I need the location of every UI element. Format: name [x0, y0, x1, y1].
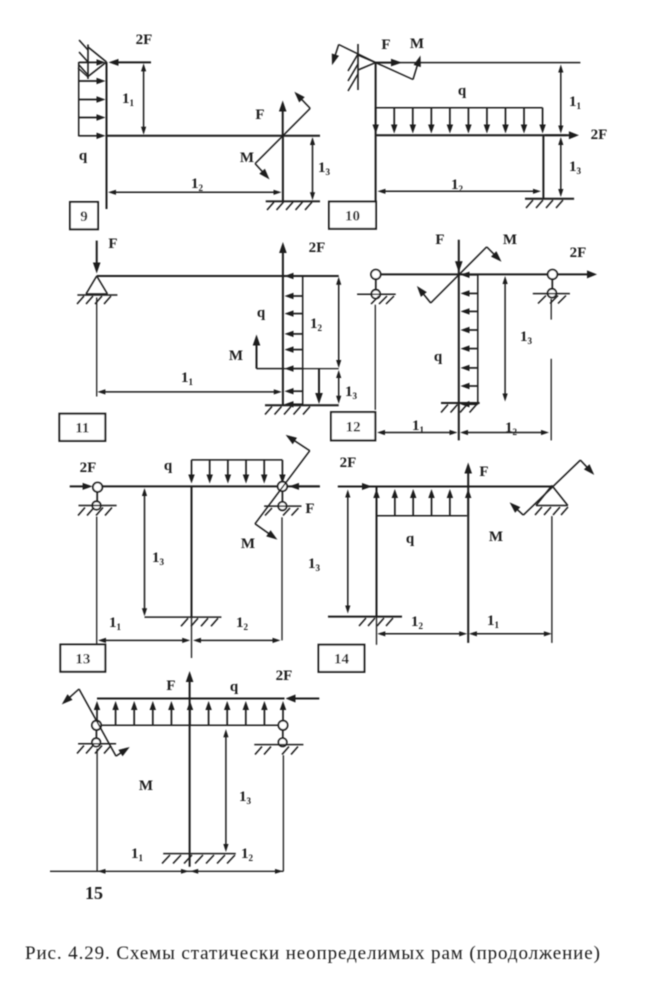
frame 11: distributed load q tail line	[302, 276, 304, 405]
frame 14: dimension l3 line	[345, 490, 350, 614]
frame 10: support wall hatching	[348, 54, 358, 91]
frame 14: label 2F	[340, 455, 357, 471]
frame 13: right extension line	[281, 517, 283, 640]
svg-text:q: q	[164, 458, 173, 474]
svg-text:2F: 2F	[340, 455, 357, 471]
svg-text:F: F	[381, 37, 390, 53]
frame 10: support wall line	[357, 44, 359, 90]
frame 10: bent reaction arrow at support	[332, 45, 376, 66]
svg-text:13: 13	[75, 652, 90, 668]
frame 9: label M	[240, 150, 254, 166]
svg-text:2F: 2F	[591, 127, 608, 143]
frame 14: label F	[479, 464, 488, 480]
frame 11: force 2F arrow	[279, 242, 287, 276]
svg-text:M: M	[410, 36, 424, 52]
frame 13: label q	[164, 458, 173, 474]
svg-text:10: 10	[345, 209, 360, 225]
frame 10: distributed load q arrows	[373, 108, 546, 134]
frame 13: label 2F	[80, 460, 97, 476]
frame 11: beam	[97, 275, 339, 277]
frame 11: label M	[229, 348, 243, 364]
frame 11: label F	[108, 236, 117, 252]
frame 10: right column	[542, 135, 544, 199]
frame 13: label l1	[109, 615, 122, 632]
frame 11: support ground line	[77, 294, 117, 296]
frame 13: label F	[305, 501, 314, 517]
frame 12: label M	[503, 232, 517, 248]
frame 10: label q	[458, 83, 467, 99]
frame 10: force F arrow	[376, 59, 402, 67]
svg-text:q: q	[434, 349, 443, 365]
svg-text:F: F	[435, 232, 444, 248]
frame 13: right roller hatching	[265, 508, 299, 516]
frame 10: beam	[376, 134, 567, 136]
svg-text:q: q	[230, 679, 239, 695]
frame 11: label q	[257, 305, 266, 321]
frame 9: left column	[106, 62, 108, 209]
frame 9: pinned support triangle side upper	[88, 47, 107, 62]
frame 15: label 2F	[276, 668, 293, 684]
frame 12: label l1	[412, 418, 425, 435]
svg-text:q: q	[406, 531, 415, 547]
frame 15: distributed load q arrows	[94, 701, 286, 725]
frame 14: support ground hatching	[535, 507, 568, 515]
frame 13: right roller ground line	[264, 505, 301, 507]
frame 15: beam	[97, 698, 285, 700]
frame 12: dimension l1 line	[377, 430, 458, 435]
frame 11: number box 11	[59, 414, 105, 441]
svg-text:14: 14	[334, 652, 350, 668]
frame 11: pinned support triangle	[86, 276, 108, 294]
frame 15: label l1	[131, 846, 144, 863]
frame 12: distributed load q tail line	[477, 274, 479, 404]
frame 13: beam	[98, 485, 320, 487]
frame 9: number box 9	[70, 202, 98, 229]
frame 10: label M	[410, 36, 424, 52]
frame 10: dimension l2 line	[378, 189, 542, 194]
frame 9: distributed load q tail line	[78, 62, 80, 136]
frame 11: left extension line	[96, 298, 98, 397]
frame 13: label l3	[152, 550, 165, 567]
frame 14: dimension l1 line	[469, 631, 552, 636]
frame 14: distributed load q arrows	[373, 489, 471, 516]
frame 9: label 2F	[136, 32, 153, 48]
svg-text:15: 15	[85, 883, 103, 903]
frame 13: dimension l2 line	[193, 638, 281, 643]
frame 13: left roller support	[92, 483, 102, 510]
frame 13: force F arrow	[289, 483, 320, 490]
frame 12: fixed support ground line	[441, 402, 480, 404]
frame 12: force 2F arrow head	[587, 270, 597, 278]
frame 10: dimension l3 line	[558, 137, 563, 197]
frame 12: right roller hatching	[538, 296, 566, 304]
frame 9: distributed load q arrows	[79, 59, 106, 139]
frame 14: label l3	[308, 556, 321, 573]
svg-text:12: 12	[346, 420, 361, 436]
frame 15: left roller hatching	[77, 746, 111, 754]
frame 15: label l3	[239, 789, 252, 806]
frame 15: right roller ground line	[254, 744, 303, 746]
frame 11: distributed load q arrows	[285, 273, 303, 408]
frame 13: middle column	[191, 486, 193, 658]
frame 12: label l3	[520, 329, 533, 346]
frame 13: label M	[241, 536, 255, 552]
frame 10: label F	[381, 37, 390, 53]
frame 10: ground hatching	[526, 200, 563, 208]
frame 11: reference line between l2 and l3	[283, 368, 339, 370]
frame 14: label l1	[487, 613, 500, 630]
frame 15: distributed load q tail line	[97, 724, 283, 726]
svg-text:F: F	[255, 107, 264, 123]
caption	[25, 943, 601, 964]
frame 12: label F	[435, 232, 444, 248]
frame 9: label F	[255, 107, 264, 123]
frame 15: number label 15	[85, 883, 103, 903]
frame 15: left extension line	[96, 749, 98, 872]
svg-text:9: 9	[80, 209, 88, 225]
frame 15: right extension line	[282, 755, 284, 871]
svg-text:2F: 2F	[309, 240, 326, 256]
frame 9: pinned support at top left (base plate)	[87, 45, 89, 80]
frame 15: right roller support	[278, 721, 287, 747]
svg-text:F: F	[305, 501, 314, 517]
frame 10: label l2	[451, 177, 464, 194]
frame 12: right extension line	[550, 299, 552, 441]
frame 12: number box 12	[331, 412, 375, 440]
frame 10: moment M bent arrow	[376, 56, 421, 80]
frame 13: dimension l1 line	[98, 638, 190, 643]
frame 12: left extension line	[374, 305, 376, 410]
frame 9: dimension l3 line	[310, 137, 315, 200]
frame 10: pinned support triangle	[358, 55, 376, 70]
frame 13: distributed load q tail line	[192, 459, 283, 461]
svg-text:F: F	[108, 236, 117, 252]
frame 14: label q	[406, 531, 415, 547]
svg-text:M: M	[241, 536, 255, 552]
svg-text:M: M	[503, 232, 517, 248]
frame 14: moment M arrows	[510, 460, 595, 515]
svg-text:M: M	[240, 150, 254, 166]
frame 15: middle column with force F arrow	[186, 671, 194, 867]
frame 9: label l2	[191, 176, 204, 193]
frame 13: ground hatching	[181, 618, 218, 626]
frame 13: fixed support ground line	[145, 616, 222, 618]
frame 10: top reference line	[376, 62, 581, 64]
frame 10: fixed support ground line	[525, 198, 574, 200]
frame 9: beam	[107, 135, 321, 137]
frame 13: number box 13	[60, 645, 105, 672]
svg-text:11: 11	[75, 421, 89, 437]
svg-text:F: F	[166, 678, 175, 694]
frame 9: label l1	[122, 91, 135, 108]
frame 9: moment M arrows	[255, 92, 310, 180]
frame 15: label l2	[241, 846, 254, 863]
frame 11: label l3	[345, 384, 358, 401]
frame 11: dimension l3 line	[336, 370, 341, 404]
frame 10: label l1	[569, 94, 582, 111]
frame 11: label l2	[310, 316, 323, 333]
frame 11: downward arrow at column base	[315, 369, 323, 404]
frame 15: right roller hatching	[255, 747, 298, 755]
frame 13: force 2F arrow	[70, 483, 93, 490]
frame 12: label l2	[505, 420, 518, 437]
frame 10: dimension l1 line	[558, 65, 563, 134]
frame 15: left roller ground line	[78, 743, 116, 745]
frame 13: left roller hatching	[78, 508, 112, 516]
frame 11: label l1	[181, 370, 194, 387]
svg-text:2F: 2F	[570, 245, 587, 261]
frame 10: force 2F arrow	[545, 131, 579, 139]
frame 13: label l2	[236, 615, 249, 632]
frame 9: force F arrow	[279, 101, 287, 136]
frame 14: ground hatching	[359, 618, 393, 626]
frame 14: fixed support ground line	[328, 616, 402, 618]
frame 11: dimension l1 line	[97, 389, 281, 394]
frame 14: dimension l2 line	[377, 631, 467, 636]
frame 12: left roller support	[371, 270, 381, 299]
frame 9: dimension l2 line	[108, 190, 282, 195]
frame 12: label 2F	[570, 245, 587, 261]
frame 14: distributed load q tail line	[377, 515, 468, 517]
svg-text:q: q	[458, 83, 467, 99]
frame 11: dimension l2 line	[336, 277, 341, 368]
frame 11: support ground hatching	[77, 296, 111, 304]
frame 9: dimension l1 line	[141, 63, 146, 134]
frame 13: left roller ground line	[79, 505, 117, 507]
frame 14: right extension line	[551, 516, 553, 643]
frame 9: right column	[282, 136, 284, 202]
frame 11: moment M bent arrow	[253, 335, 283, 369]
frame 15: moment M arrows	[62, 689, 130, 756]
frame 14: label M	[489, 529, 503, 545]
frame 15: ground hatching	[162, 855, 235, 864]
frame 14: number box 14	[319, 645, 365, 672]
frame 14: pinned support triangle	[536, 486, 568, 506]
frame 11: force F arrow	[93, 241, 101, 274]
frame 10: left column	[375, 63, 377, 202]
frame 10: label 2F	[591, 127, 608, 143]
frame 11: right column	[282, 276, 284, 405]
frame 13: distributed load q arrows	[188, 460, 285, 484]
frame 12: left roller ground line	[357, 293, 396, 295]
frame 14: left column	[376, 487, 378, 645]
frame 9: fixed support ground line	[266, 200, 320, 202]
frame 10: distributed load q tail line	[376, 107, 543, 109]
frame 12: dimension l3 line	[503, 276, 508, 402]
frame 9: force 2F arrow	[109, 59, 152, 66]
frame 12: label q	[434, 349, 443, 365]
frame 15: force 2F arrow	[286, 695, 320, 703]
frame 15: label F	[166, 678, 175, 694]
frame 12: ground hatching	[441, 405, 477, 413]
svg-text:2F: 2F	[276, 668, 293, 684]
frame 13: left extension line	[96, 517, 98, 645]
frame 13: moment M arrows	[255, 435, 310, 540]
frame 12: middle column with force F arrow	[455, 240, 463, 441]
frame 12: distributed load q arrows	[461, 272, 478, 408]
svg-text:M: M	[139, 778, 153, 794]
svg-text:q: q	[79, 148, 88, 164]
svg-text:2F: 2F	[80, 460, 97, 476]
frame 15: label M	[139, 778, 153, 794]
frame 9: label l3	[318, 160, 331, 177]
frame 15: dimension l1 l2 line	[50, 869, 283, 874]
frame 9: ground hatching	[267, 202, 312, 210]
svg-text:F: F	[479, 464, 488, 480]
svg-text:q: q	[257, 305, 266, 321]
frame 11: ground hatching	[265, 407, 310, 415]
frame 15: left roller support	[92, 721, 101, 747]
frame 9: label q	[79, 148, 88, 164]
svg-text:2F: 2F	[136, 32, 153, 48]
frame 14: label l2	[411, 614, 424, 631]
frame 9: pinned support triangle side lower	[88, 62, 107, 77]
frame 15: fixed support ground line	[163, 853, 236, 855]
frame 12: beam	[376, 273, 591, 275]
frame 15: label q	[230, 679, 239, 695]
frame 13: dimension l3 line	[142, 488, 147, 616]
frame 14: beam	[338, 486, 552, 488]
frame 15: dimension l3 line	[223, 729, 228, 852]
frame 14: middle column with force F arrow	[464, 463, 472, 643]
frame 14: force 2F arrow	[338, 483, 372, 490]
svg-text:M: M	[489, 529, 503, 545]
frame 10: label l3	[569, 159, 582, 176]
frame 12: dimension l2 line	[460, 430, 549, 435]
frame 12: right roller ground line	[533, 293, 570, 295]
frame 11: label 2F	[309, 240, 326, 256]
frame 12: left roller hatching	[371, 296, 394, 304]
frame 12: right roller support	[548, 270, 558, 298]
svg-text:Рис. 4.29. Схемы статически не: Рис. 4.29. Схемы статически неопределимы…	[25, 943, 601, 964]
frame 12: moment M arrows	[417, 247, 502, 303]
frame 9: support hatching	[78, 40, 88, 77]
frame 11: fixed support ground line	[265, 404, 339, 406]
frame 10: number box 10	[329, 202, 376, 229]
frame 13: right roller support	[278, 482, 287, 511]
svg-text:M: M	[229, 348, 243, 364]
